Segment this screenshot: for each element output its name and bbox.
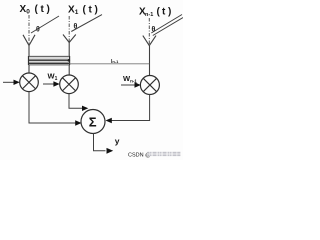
antenna element 1 : incident wave ray xyxy=(71,15,102,32)
wire: antenna N-1 feed down to multiplier N-1 xyxy=(149,46,151,76)
junction dot at right end of delay line xyxy=(68,59,71,62)
antenna element 0 : label X0(t) xyxy=(20,4,50,16)
antenna element 1 : label X1(t) xyxy=(68,5,98,17)
antenna element 1 : dash-dot boresight axis xyxy=(68,16,70,42)
delay line hatched band between element 0 and element 1 xyxy=(29,56,71,65)
antenna element N-1 : label Xn-1(t) xyxy=(139,7,171,19)
wire: thin line from element 1 over to element N-1 xyxy=(70,63,150,65)
svg-text:Xn-1(t): Xn-1(t) xyxy=(139,7,171,19)
svg-text:X1(t): X1(t) xyxy=(68,5,98,17)
svg-text:y: y xyxy=(115,136,120,146)
antenna element N-1 : dipole V symbol xyxy=(143,36,156,46)
svg-text:θ: θ xyxy=(74,24,78,31)
antenna element 0 : incident wave ray xyxy=(31,16,59,33)
multiplier N-1 (circle with X) xyxy=(140,76,159,95)
wire: antenna 1 feed down through delay line to multiplier 1 xyxy=(68,43,70,76)
input arrow into multiplier N-1 xyxy=(121,82,141,87)
input arrow into multiplier 1 xyxy=(43,81,60,86)
wire: multiplier N-1 output down and left into summer xyxy=(106,94,150,123)
wire: multiplier 1 output down and right into summer top xyxy=(69,93,88,111)
antenna element N-1 : incident wave ray (double) xyxy=(151,15,182,34)
multiplier 1 (circle with X) xyxy=(60,75,79,94)
svg-text:θ: θ xyxy=(152,27,156,34)
svg-text:θ: θ xyxy=(36,27,40,34)
antenna element 0 : dipole V symbol xyxy=(23,35,35,46)
multiplier 0 (circle with X) xyxy=(20,73,39,92)
wire: multiplier 0 output down and right into summer xyxy=(29,91,82,125)
antenna element 0 : dash-dot boresight axis xyxy=(28,15,30,45)
output wire: summer down then right, arrow xyxy=(94,133,114,153)
antenna element N-1 : dash-dot boresight axis xyxy=(148,18,150,45)
wire: antenna 0 feed from delay line down to multiplier 0 xyxy=(28,65,30,73)
svg-text:W1: W1 xyxy=(48,72,58,83)
antenna element 1 : dipole V symbol xyxy=(63,35,76,43)
svg-text:Σ: Σ xyxy=(89,114,97,129)
svg-text:X0(t): X0(t) xyxy=(20,4,50,16)
wire: antenna 0 feed down to delay line xyxy=(28,46,30,57)
watermark CSDN xyxy=(128,152,181,159)
summer (circle with sigma) xyxy=(81,110,105,134)
svg-text:Wn-1: Wn-1 xyxy=(123,74,137,84)
input arrow into multiplier 0 xyxy=(3,80,20,85)
